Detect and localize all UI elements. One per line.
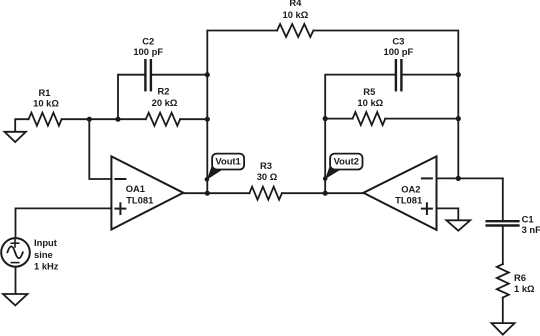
wire C2 right to feedback vertical: [151, 74, 207, 76]
svg-text:R6: R6: [514, 272, 526, 283]
resistor R5: [353, 86, 386, 125]
node junction dots: [87, 72, 461, 196]
resistor R6: [497, 264, 535, 297]
node C2 left junction: [115, 117, 120, 122]
ground for OA2: [446, 220, 470, 230]
svg-text:TL081: TL081: [126, 194, 153, 205]
svg-text:Input: Input: [34, 237, 57, 248]
wire R2 right to feedback vertical: [180, 118, 207, 120]
wire OA1 output to R3: [183, 192, 249, 194]
wire R1 to R2: [62, 118, 146, 120]
resistor R1: [29, 87, 62, 126]
svg-text:3 nF: 3 nF: [522, 224, 540, 235]
capacitor C3: [384, 35, 414, 90]
svg-text:TL081: TL081: [395, 194, 422, 205]
svg-text:20 kΩ: 20 kΩ: [152, 97, 178, 108]
callout label Vout1: [207, 154, 244, 180]
wire source to ground: [15, 267, 17, 294]
resistor R2: [146, 86, 180, 126]
wire R4 right to OA2 inverting node: [313, 31, 458, 179]
wire R6 to ground: [502, 298, 504, 324]
node C3 right junction: [456, 72, 461, 77]
wire R5 right: [385, 118, 458, 120]
resistor R4: [277, 0, 313, 37]
node OA1 output junction: [205, 191, 210, 196]
voltage source V1 input sine: [1, 237, 59, 271]
wire C3 right: [401, 74, 458, 76]
wire C2 branch top: [118, 75, 145, 120]
node OA2 inverting junction: [456, 176, 461, 181]
svg-text:10 kΩ: 10 kΩ: [283, 9, 309, 20]
callout label Vout2: [325, 154, 362, 179]
svg-text:R1: R1: [39, 87, 51, 98]
node R5 left junction: [323, 116, 328, 121]
ground for source: [3, 294, 28, 305]
op-amp OA2: [363, 156, 436, 230]
ground for R1: [5, 119, 29, 142]
svg-text:1 kHz: 1 kHz: [34, 260, 59, 271]
svg-text:100 pF: 100 pF: [133, 46, 163, 57]
svg-text:R3: R3: [260, 160, 272, 171]
wire top feedback from node Vout1 vertical to R4 left: [207, 31, 277, 194]
wire OA1 inverting input: [89, 119, 111, 179]
wire OA2 inverting input to C1 branch: [437, 177, 503, 179]
node R1 to OA1 inverting: [87, 117, 92, 122]
wire R5 left: [325, 118, 352, 120]
svg-text:10 kΩ: 10 kΩ: [33, 98, 59, 109]
svg-text:OA2: OA2: [401, 183, 420, 194]
node Vout2 tap: [323, 176, 328, 181]
wire R3 to OA2 output node: [282, 192, 364, 194]
node OA2 output junction: [323, 191, 328, 196]
svg-text:R5: R5: [363, 86, 375, 97]
svg-text:R4: R4: [289, 0, 302, 8]
node R2 right junction: [205, 117, 210, 122]
node R5 right junction: [456, 116, 461, 121]
capacitor C2: [133, 35, 163, 90]
svg-text:Vout1: Vout1: [215, 156, 240, 167]
wire OA2 non-inverting input to ground: [437, 208, 459, 220]
svg-text:R2: R2: [158, 86, 170, 97]
svg-text:1 kΩ: 1 kΩ: [514, 283, 535, 294]
capacitor C1: [487, 213, 540, 235]
svg-text:C1: C1: [522, 213, 534, 224]
wire down to C1: [502, 178, 504, 220]
svg-text:C3: C3: [392, 35, 404, 46]
svg-text:C2: C2: [142, 35, 154, 46]
node C2 right junction: [205, 72, 210, 77]
wire C1 to R6: [502, 227, 504, 264]
svg-text:100 pF: 100 pF: [384, 46, 414, 57]
wire OA1 non-inverting input from source: [16, 208, 112, 238]
op-amp OA1: [111, 156, 183, 229]
node Vout1 tap: [205, 177, 210, 182]
resistor R3: [249, 160, 282, 200]
svg-text:30 Ω: 30 Ω: [257, 171, 278, 182]
ground for R6: [492, 323, 515, 335]
svg-text:OA1: OA1: [126, 183, 145, 194]
svg-text:10 kΩ: 10 kΩ: [357, 97, 383, 108]
svg-text:sine: sine: [34, 249, 53, 260]
wire Vout2 vertical to C3: [325, 75, 396, 194]
svg-text:Vout2: Vout2: [334, 156, 359, 167]
